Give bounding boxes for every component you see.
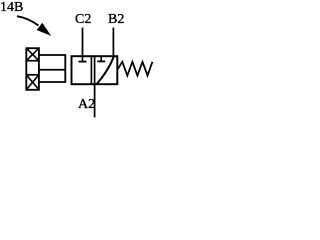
blocked port (right cell) [97,56,105,61]
blocked port (left cell, C2) [79,56,87,61]
wire: solenoid to bar, top [39,54,65,56]
wire: solenoid to bar, middle [39,69,65,71]
solenoid S (3-cell box, X in top and bottom cells) [26,48,39,90]
spring [117,62,152,76]
port line B2 [112,28,114,57]
port line C2 [82,28,84,57]
label A2 [78,97,95,113]
flow path diagonal (A2 to B2) [96,57,114,85]
label C2 [75,12,91,28]
callout arrow from 14B [17,16,51,35]
valve position divider (double line) [91,56,94,84]
port line A2 [94,84,96,117]
label B2 [108,12,124,28]
actuator bar [64,54,66,83]
valve body V1 (two-position) [72,56,118,84]
label 14B [0,0,23,16]
wire: solenoid to bar, bottom [39,81,65,83]
